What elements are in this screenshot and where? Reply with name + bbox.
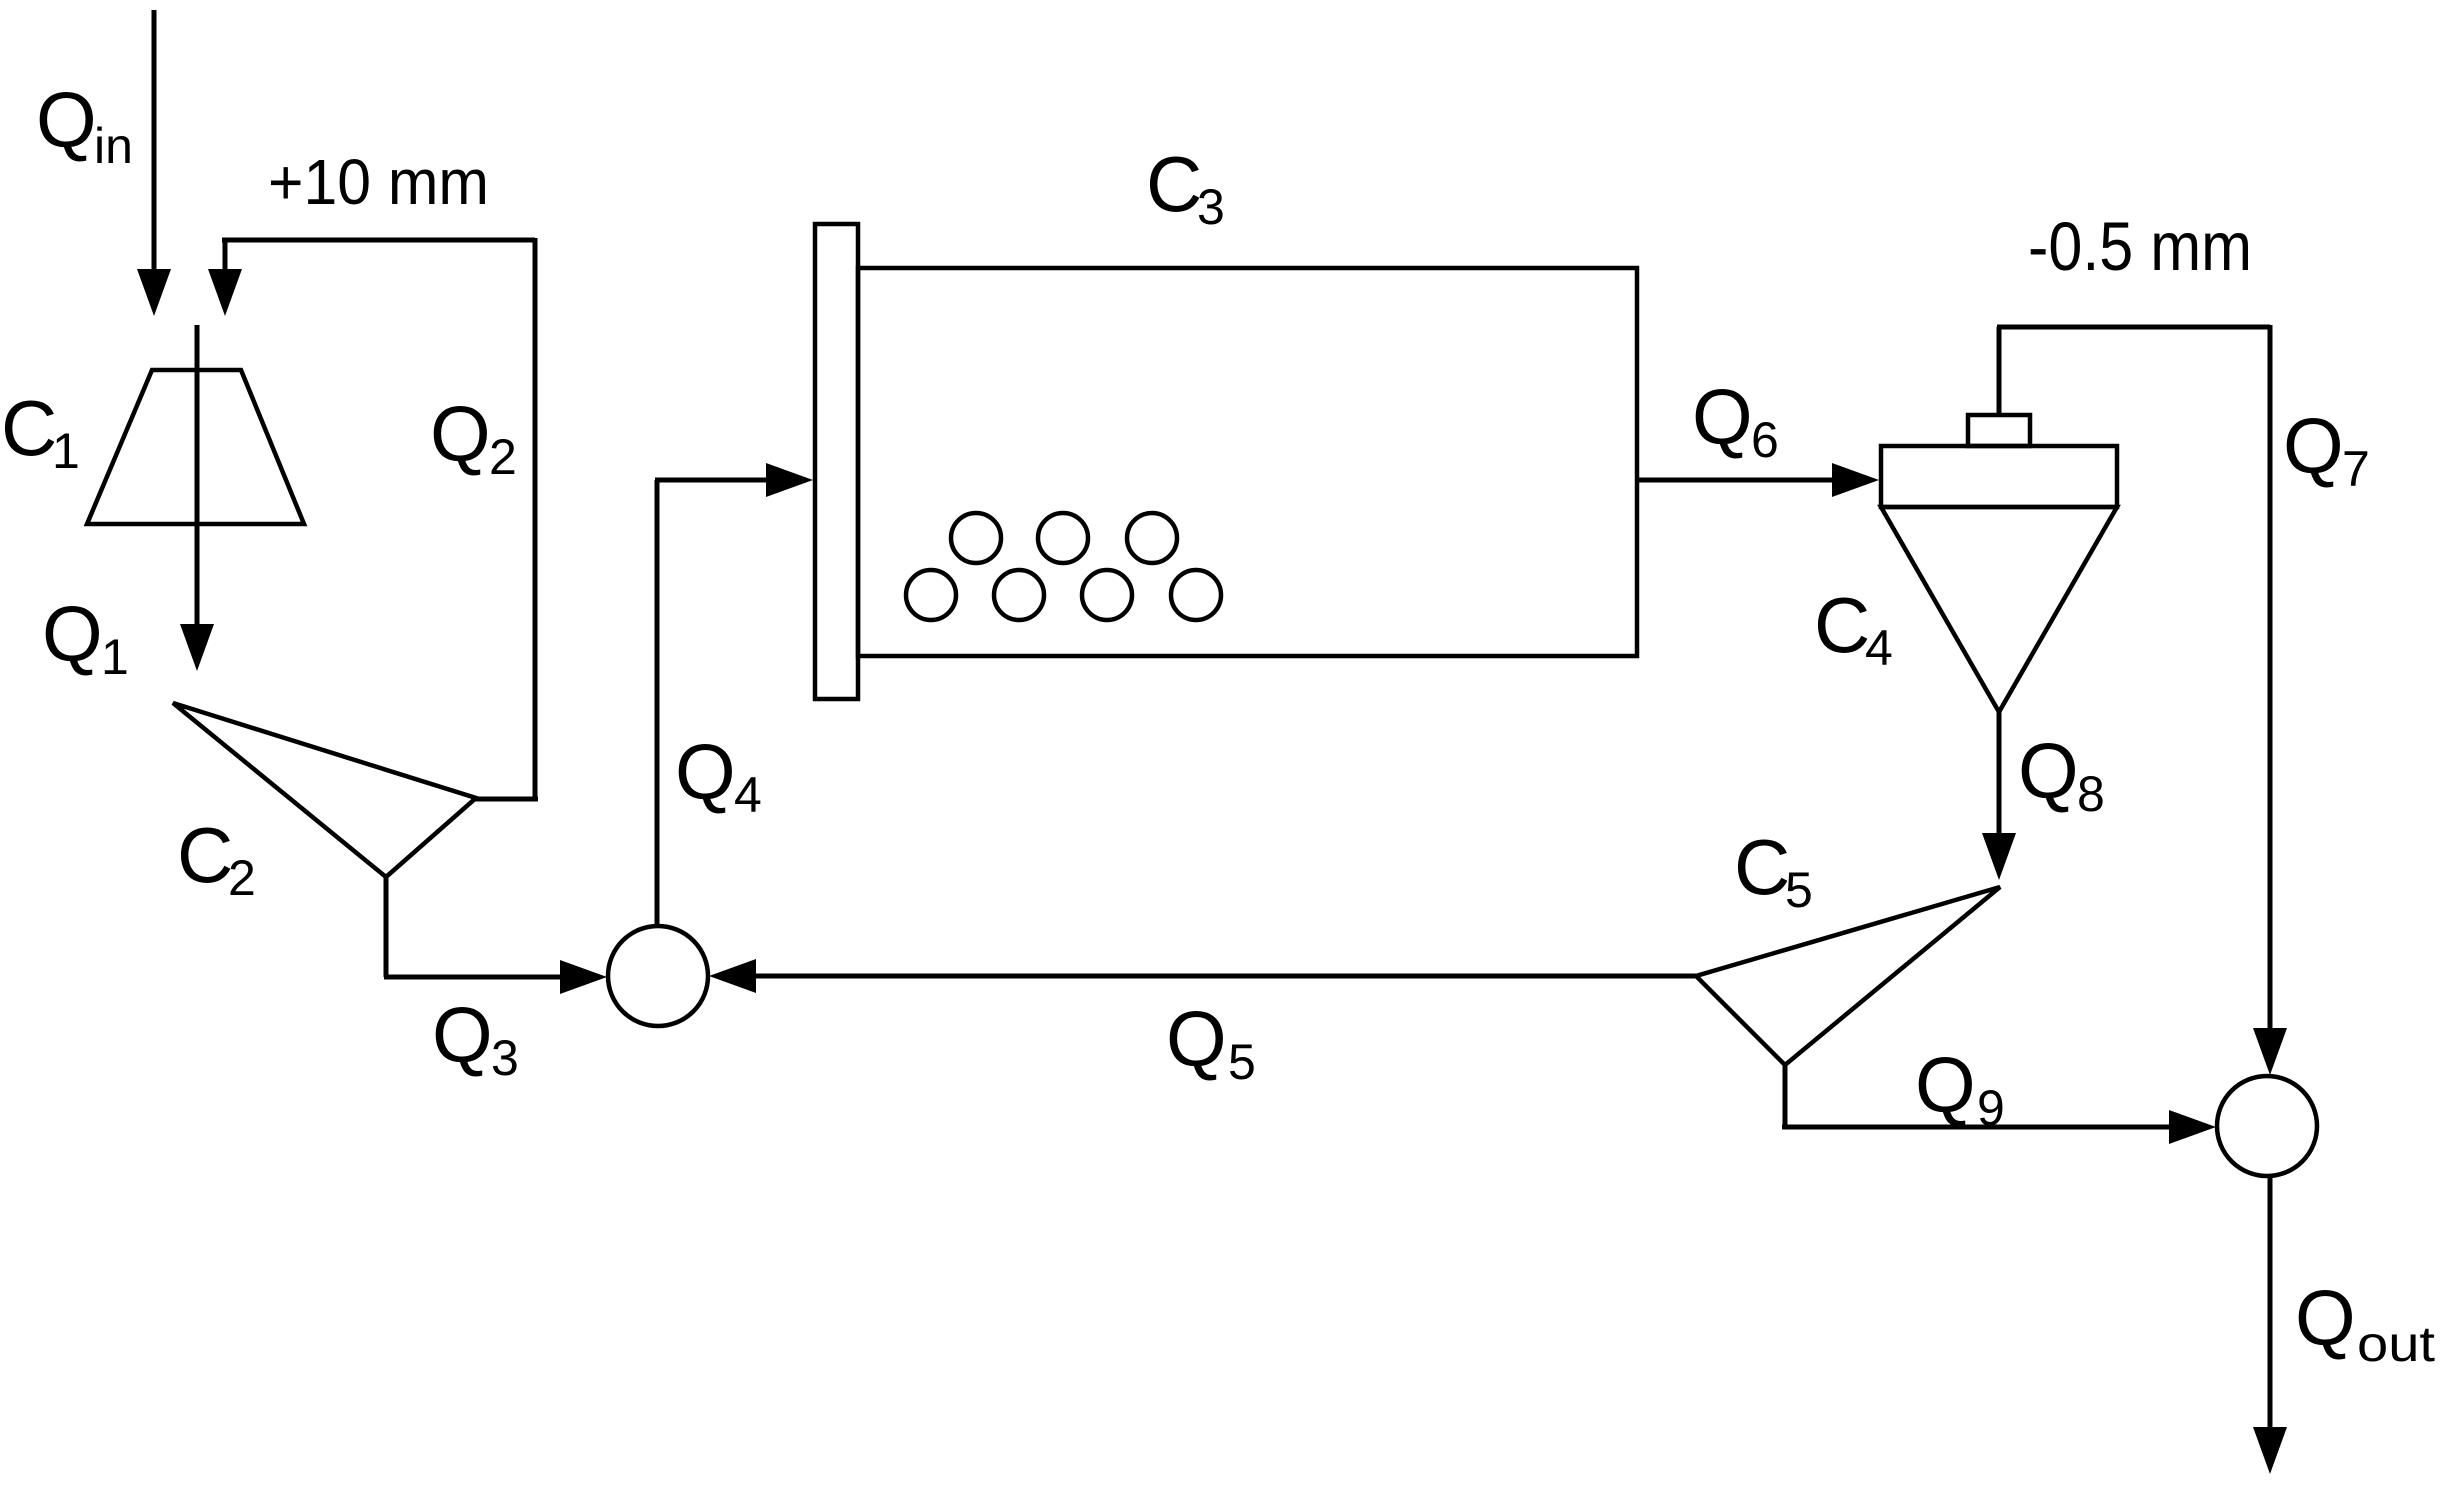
wire Q7 horizontal [1997, 325, 2270, 330]
wire Q2 to screen connector [474, 797, 538, 802]
node mixer circle (sump) [608, 926, 708, 1026]
svg-text:C: C [1734, 823, 1790, 911]
arrowhead Q4 into mill [766, 463, 813, 497]
ball 2 [1038, 513, 1088, 563]
svg-text:out: out [2357, 1316, 2435, 1372]
wire +10 mm horizontal [222, 238, 535, 243]
svg-text:Q: Q [2295, 1274, 2356, 1362]
svg-text:C: C [1146, 140, 1202, 228]
svg-text:Q: Q [432, 991, 493, 1079]
label Q9 [1915, 1041, 2005, 1136]
wire cyclone overflow stub [1997, 327, 2002, 417]
svg-text:Q: Q [36, 76, 97, 164]
arrowhead Q5 into mixer [709, 959, 756, 993]
svg-text:1: 1 [52, 423, 80, 479]
ball 3 [1127, 513, 1177, 563]
wire Q2 vertical [533, 238, 538, 799]
svg-text:Q: Q [675, 728, 736, 816]
arrowhead Q7 into output node [2253, 1028, 2287, 1075]
label Q4 [675, 728, 762, 823]
arrowhead Q6 into cyclone [1832, 463, 1879, 497]
label Q7 [2283, 402, 2370, 497]
svg-text:C: C [1814, 581, 1870, 669]
label Q2 [430, 390, 517, 485]
svg-text:in: in [94, 118, 133, 174]
svg-text:Q: Q [1166, 995, 1227, 1083]
label Q1 [42, 590, 129, 685]
label Q6 [1692, 373, 1779, 468]
crusher C1 (trapezoid) [87, 370, 304, 524]
wire Q8 vertical [1997, 712, 2002, 836]
svg-text:Q: Q [1692, 373, 1753, 461]
wire Qin feed line [152, 10, 157, 272]
cyclone C4 vortex finder [1968, 415, 2030, 446]
svg-text:6: 6 [1751, 412, 1779, 468]
wire Q9 vertical [1783, 1063, 1788, 1127]
ball 6 [1082, 570, 1132, 620]
cyclone C4 cone [1881, 507, 2117, 712]
screen C5 (triangle) [1696, 887, 2000, 1065]
svg-text:Q: Q [42, 590, 103, 678]
mill C3 end bar [815, 224, 858, 699]
ball 1 [951, 513, 1001, 563]
svg-text:8: 8 [2077, 766, 2105, 822]
svg-text:3: 3 [1197, 179, 1225, 235]
cyclone C4 body [1881, 446, 2117, 507]
svg-text:Q: Q [2018, 727, 2079, 815]
wire Qout vertical [2268, 1175, 2273, 1430]
label Q3 [432, 991, 519, 1086]
node output mixer circle [2217, 1076, 2317, 1176]
label Q5 [1166, 995, 1256, 1090]
ball 7 [1171, 570, 1221, 620]
arrowhead Qin into crusher [137, 269, 171, 316]
svg-text:+10 mm: +10 mm [268, 146, 489, 218]
svg-text:7: 7 [2342, 441, 2370, 497]
wire Q4 horizontal [655, 478, 769, 483]
svg-text:C: C [177, 811, 233, 899]
ball 5 [994, 570, 1044, 620]
label C4 [1814, 581, 1893, 676]
svg-text:9: 9 [1977, 1080, 2005, 1136]
wire Q7 vertical [2268, 325, 2273, 1031]
svg-text:Q: Q [430, 390, 491, 478]
wire Q6 horizontal [1639, 478, 1835, 483]
wire recycle stub into crusher [223, 238, 228, 272]
svg-text:2: 2 [489, 429, 517, 485]
mill C3 shell [858, 268, 1637, 656]
arrowhead Q8 into screen C5 [1982, 833, 2016, 880]
label Q8 [2018, 727, 2105, 822]
svg-text:4: 4 [734, 767, 762, 823]
svg-text:Q: Q [2283, 402, 2344, 490]
wire Q4 vertical [655, 480, 660, 928]
screen C2 (triangle) [173, 703, 476, 877]
svg-text:4: 4 [1865, 620, 1893, 676]
label C5 [1734, 823, 1813, 918]
svg-text:1: 1 [101, 629, 129, 685]
wire crusher vertical line [195, 325, 200, 627]
arrowhead Q9 into output node [2169, 1110, 2216, 1144]
label Qin [36, 76, 133, 174]
wire Q3 horizontal [384, 975, 563, 980]
arrowhead Q1 into screen C2 [180, 624, 214, 671]
svg-text:C: C [1, 384, 57, 472]
arrowhead Qout [2253, 1427, 2287, 1474]
wire Q3 vertical [384, 875, 389, 977]
svg-text:5: 5 [1785, 862, 1813, 918]
svg-text:2: 2 [228, 850, 256, 906]
svg-text:5: 5 [1228, 1034, 1256, 1090]
label C2 [177, 811, 256, 906]
label C1 [1, 384, 80, 479]
svg-text:Q: Q [1915, 1041, 1976, 1129]
arrowhead Q3 into mixer [560, 960, 607, 994]
svg-text:3: 3 [491, 1030, 519, 1086]
arrowhead recycle into crusher [208, 269, 242, 316]
label C3 [1146, 140, 1225, 235]
wire Q9 horizontal [1782, 1125, 2172, 1130]
label Qout [2295, 1274, 2435, 1372]
svg-text:-0.5 mm: -0.5 mm [2028, 208, 2252, 285]
wire Q5 horizontal [753, 974, 1696, 979]
ball 4 [906, 570, 956, 620]
